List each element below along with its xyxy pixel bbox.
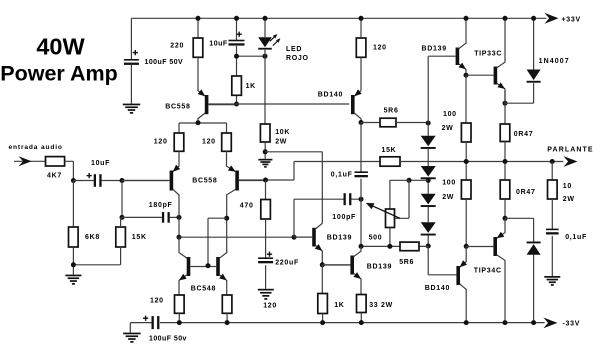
wire Q5 emitter to R13 [465,75,467,123]
junction Q5 emitter / Q6 base [464,73,469,78]
junction C5 / VAS line [359,197,364,202]
diode D1 [421,136,436,149]
svg-text:BD139: BD139 [422,46,447,53]
wire node to R3 1K [236,56,238,104]
wire C3 to Q2 base [102,180,168,182]
junction Q2 collector / mirror rail [177,235,182,240]
resistor R15 10 2W [548,180,558,199]
wire R17 to Q12 emitter node [504,199,506,218]
arrow entrada audio [19,156,32,166]
resistor R19 33 2W [357,295,367,313]
svg-text:-33V: -33V [563,320,581,327]
wire Q2 collector to mirror [178,217,180,237]
junction C4 left [120,215,125,220]
wire R15 to C8 [551,199,553,276]
resistor R16 100 2W [461,180,471,199]
svg-text:BC558: BC558 [192,178,217,185]
ground bottom left [123,333,140,343]
wire R9 top to C4 node [121,218,122,227]
wire Q4 collector to R12 [361,122,380,124]
resistor R14 0R47 [500,124,510,142]
svg-text:PARLANTE: PARLANTE [547,147,593,154]
plus sign C2 [237,32,242,37]
ground under C7 [258,289,274,300]
ground input bias [65,275,81,285]
wire node to C3 [73,180,93,182]
wire output to R15 [551,162,553,181]
wire rail to D5 [533,18,535,69]
svg-text:Power Amp: Power Amp [0,62,117,86]
wire D6 to -33V [533,254,535,322]
diode D2 [421,166,436,179]
junction output line [464,159,555,164]
wire C2 to LED node [237,55,266,57]
ground under R4 [258,159,272,168]
wire R4 to ground node [264,142,266,159]
transistor Q4 BD140 [351,89,362,120]
transistor Q11 BD140 bottom [456,246,467,322]
svg-text:10K: 10K [275,129,290,136]
svg-text:0,1uF: 0,1uF [565,234,587,241]
capacitor C2 10uF [229,40,245,46]
wire Q3 base net [239,162,380,181]
plus sign C7 [267,252,272,257]
wire rail to C1 [130,18,132,103]
capacitor C6 0,1uF [355,171,368,177]
svg-text:40W: 40W [36,34,85,60]
resistor R22 5R6 [400,242,419,251]
wire LED to R4 10K [264,56,266,124]
svg-text:entrada audio: entrada audio [9,144,63,151]
plus sign C3 [87,173,92,178]
svg-text:1N4007: 1N4007 [539,58,570,65]
wire pot top [390,180,409,209]
svg-text:TIP34C: TIP34C [474,268,502,275]
svg-text:100pF: 100pF [332,214,356,221]
svg-text:2W: 2W [442,194,454,201]
wire R14 to output [504,142,506,181]
wire node down to C4 row [121,181,123,218]
resistor R3 1K [232,76,242,95]
ground under C8 [544,276,560,286]
svg-text:TIP33C: TIP33C [474,50,502,57]
wire Q4 collector to node [360,120,362,122]
junction pot tap [407,178,412,183]
svg-text:1K: 1K [334,302,344,309]
junction C2/LED row [234,54,268,59]
diode D4 [421,222,436,235]
svg-text:100uF 50V: 100uF 50V [145,59,184,66]
junction Q4 collector / R12 / C6 [359,120,364,125]
svg-text:180pF: 180pF [149,202,173,209]
svg-text:ROJO: ROJO [286,55,309,62]
wire R12 to diode string [396,122,428,124]
potentiometer RV1 500 [366,203,400,228]
svg-text:5R6: 5R6 [399,259,414,266]
junction R4 / bias wire [263,149,268,154]
wire Q6 emitter net [505,83,534,124]
junction rail Q6 collector [503,16,508,21]
svg-text:BC548: BC548 [191,286,216,293]
capacitor C3 10uF input [94,174,102,187]
arrow +33V [545,13,559,24]
wire R1 to Q1 emitter [197,57,199,91]
wire rail to R2 120 [360,18,362,38]
wire input line [14,160,46,162]
LED ROJO [258,34,280,50]
svg-text:120: 120 [202,139,216,146]
resistor R5 120 [174,133,184,151]
junction -33V rail [177,320,536,325]
svg-text:+33V: +33V [562,16,581,23]
resistor R7 4K7 [46,157,65,166]
capacitor C9 100uF 50v [152,316,160,329]
svg-text:500: 500 [369,235,383,242]
wire R20 R21 to -33V [179,313,227,322]
junction R10 470 node [263,178,268,183]
svg-text:BD140: BD140 [318,92,343,99]
wire VAS out row [361,245,428,247]
resistor R9 15K [116,227,126,247]
junction Q1 base / R3 [234,102,239,107]
wire C4 to Q2 collector line [170,216,179,218]
svg-text:4K7: 4K7 [47,172,62,179]
junction Q1 collector [196,120,201,125]
diode D3 [421,194,436,207]
diode D5 1N4007 top [527,70,541,83]
wire bias node to Q7 collector [265,152,322,224]
capacitor C7 220uF [258,257,273,263]
wire to C4 180pF [122,216,162,218]
capacitor C8 0,1uF output [546,229,559,235]
svg-text:0,1uF: 0,1uF [331,171,353,178]
svg-text:10: 10 [563,183,572,190]
wire R10 to C7 220uF [265,219,267,289]
svg-text:120: 120 [263,302,277,309]
svg-text:100: 100 [442,179,456,186]
wire R6 to Q3 emitter [226,151,228,165]
junction rail D5 [531,16,536,21]
transistor Q5 BD139 top [456,18,466,75]
transistor Q3 BC558 diff right [227,165,266,218]
junction input node [71,178,76,183]
wire tap to diode mid [409,179,428,181]
plus sign C1 [133,50,138,55]
junction Q12 base node [464,244,469,249]
junction Q7 emitter / Q8 base [320,262,325,267]
junction Q6 emitter node [503,101,508,106]
svg-text:2W: 2W [275,138,287,145]
wire diode string [427,123,429,246]
resistor R1 220 [193,38,203,57]
capacitor C1 100uF 50V [124,59,139,65]
wire -33V rail [130,323,544,333]
junction Q12 emitter node [503,216,508,221]
svg-text:0R47: 0R47 [516,189,536,196]
transistor Q2 BC558 diff left [122,165,180,218]
diode D6 1N4007 bottom [527,242,541,255]
svg-text:5R6: 5R6 [384,108,399,115]
capacitor C5 100pF [344,193,352,205]
wire mirror base jog [208,218,227,266]
wire 100pF branch [294,199,361,237]
wire pot wiper [395,180,409,218]
wire node to R18 1K [321,265,323,294]
svg-text:220uF: 220uF [275,260,299,267]
junction Q3 collector [224,216,229,221]
plus sign C9 [143,316,148,321]
wire R2 to Q4 emitter [360,57,362,90]
svg-text:BD139: BD139 [327,235,352,242]
svg-text:10uF: 10uF [91,160,110,167]
junction ground node input [71,262,76,267]
wire Q11 base [428,246,456,275]
junction diode string bottom [426,244,431,249]
transistor Q9 BC548 left [179,237,208,295]
svg-text:2W: 2W [442,125,454,132]
junction rail Q5 collector [464,16,469,21]
svg-text:10uF: 10uF [209,40,228,47]
wire R16 to Q12 base node [465,199,467,246]
capacitor C4 180pF [162,212,170,223]
wire rail to LED [264,18,266,56]
svg-text:100uF 50v: 100uF 50v [149,335,187,342]
wire Q1 collector split [179,123,227,133]
transistor Q10 BC548 right [208,253,227,295]
wire Q6 base [466,74,494,76]
svg-text:LED: LED [286,46,302,53]
transistor Q6 TIP33C [494,18,505,103]
wire rail to C2 [236,18,238,56]
svg-text:BD139: BD139 [367,264,392,271]
transistor Q7 BD139 first [294,223,322,264]
transistor Q1 BC558 current source [198,89,237,120]
arrow -33V [543,318,557,329]
wire R8 R9 to ground [73,247,120,275]
ground under C1 [123,104,141,114]
junction Q2 base / C4 node [120,178,125,183]
svg-text:15K: 15K [132,234,147,241]
resistor R8 6K8 [69,227,79,247]
wire Q12 emitter to D6 [505,218,534,241]
svg-text:BD140: BD140 [425,285,450,292]
wire rail to R1 220 [197,18,199,38]
resistor R17 0R47 [500,180,510,199]
arrow PARLANTE [564,156,578,167]
junction BC548 bases [206,263,211,268]
svg-text:2W: 2W [563,196,575,203]
wire R7 to input node [65,161,74,180]
resistor R18 1K [318,294,328,314]
svg-text:33 2W: 33 2W [369,302,393,309]
junction +33V rail [196,16,364,21]
resistor R6 120 [222,133,232,151]
resistor R21 120 [222,295,232,313]
svg-text:6K8: 6K8 [85,234,100,241]
junction diode mid tap [426,178,431,183]
resistor R13 100 2W [461,123,471,142]
wire pot bottom [389,228,391,247]
junction diode string top [426,121,431,126]
svg-text:120: 120 [373,45,387,52]
wire R5 to Q2 emitter [178,151,180,165]
resistor R2 120 [356,38,366,57]
svg-text:120: 120 [154,139,168,146]
wire R11 to output line [400,161,563,163]
wire Q1 collector to node [197,120,199,123]
svg-text:100: 100 [443,111,457,118]
wire Q1 base to Q4 base [208,103,349,105]
resistor R20 120 [175,295,185,313]
svg-text:0R47: 0R47 [514,131,534,138]
svg-text:220: 220 [170,42,184,49]
wire +33V rail [131,17,546,19]
junction C4 / Q2 collector [177,215,182,220]
wire R18 R19 to -33V [323,313,362,323]
wire mirror rail [179,236,294,238]
wire node to R10 470 [265,180,267,200]
svg-text:BC558: BC558 [165,104,190,111]
resistor R12 5R6 [380,118,396,127]
junction VAS out row [359,244,393,249]
resistor R10 470 [261,200,271,220]
resistor R4 10K 2W [260,124,270,142]
wire VAS column [360,123,362,247]
wire Q3 collector node [226,218,228,253]
svg-text:1K: 1K [246,83,256,90]
wire input node to R8 6K8 [72,181,74,228]
wire Q5 base [428,56,455,123]
wire Q8 base [322,264,350,266]
wire R13 to output [465,142,467,180]
transistor Q12 TIP34C [466,218,505,322]
resistor R11 15K feedback [380,157,400,166]
junction BD139 base node [292,235,297,240]
svg-text:470: 470 [240,202,254,209]
svg-text:15K: 15K [382,147,397,154]
transistor Q8 BD139 second [322,246,361,294]
svg-text:120: 120 [150,298,164,305]
